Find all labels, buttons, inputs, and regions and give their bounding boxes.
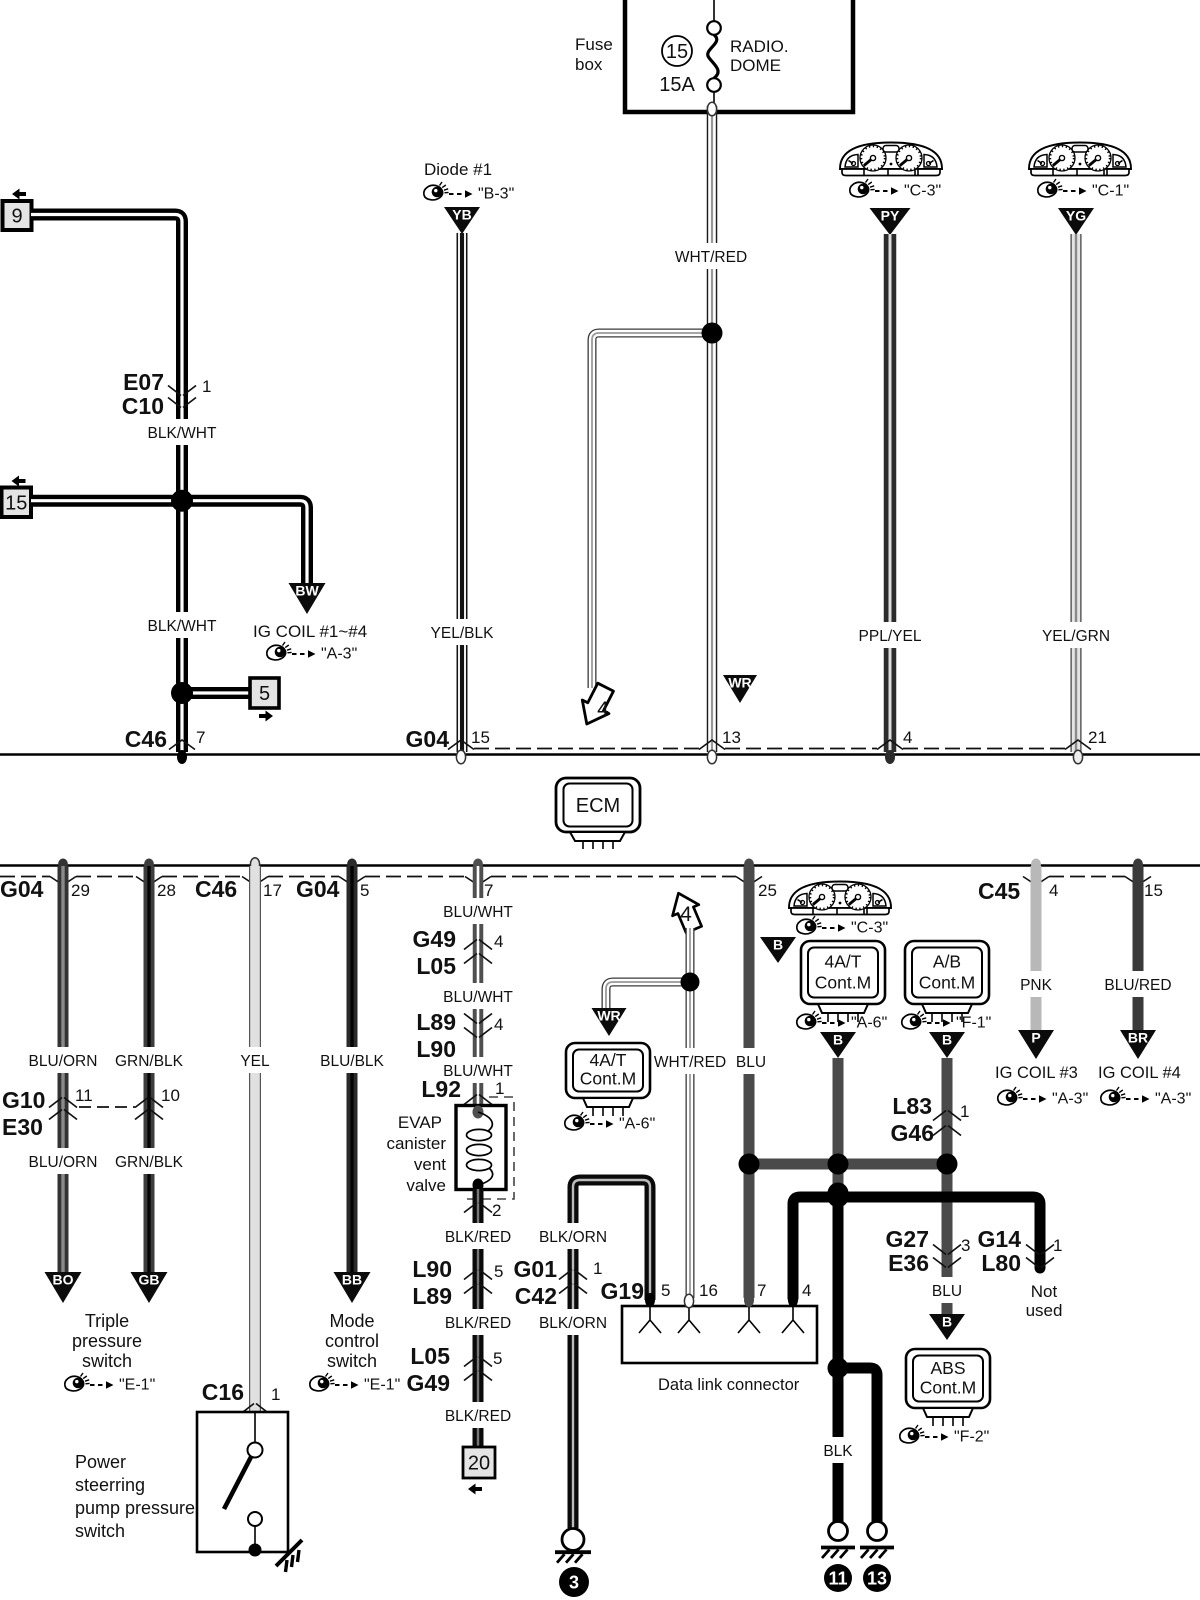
svg-text:BLK/RED: BLK/RED bbox=[445, 1315, 511, 1332]
svg-text:Triple: Triple bbox=[85, 1311, 129, 1331]
svg-text:1: 1 bbox=[202, 377, 211, 396]
label BLU/WHT 2 bbox=[443, 983, 513, 1009]
svg-text:11: 11 bbox=[828, 1569, 847, 1589]
connector triangle WR floating bbox=[723, 675, 757, 703]
svg-text:1: 1 bbox=[593, 1259, 602, 1278]
wire PPL/YEL to ECM pin 4 bbox=[884, 234, 897, 752]
ECM bottom rail with dashed connector line bbox=[0, 866, 1200, 877]
svg-text:G49: G49 bbox=[413, 926, 456, 952]
label PPL/YEL bbox=[857, 622, 923, 648]
node BLK/WHT junction 1 bbox=[171, 490, 193, 512]
4A/T control module (left) bbox=[566, 1043, 650, 1098]
wire BLU/WHT ECM 7 to EVAP valve bbox=[473, 866, 484, 1105]
svg-text:13: 13 bbox=[867, 1569, 887, 1589]
connector triangle BB bbox=[334, 1272, 371, 1303]
wire BLU/ORN ECM 29 to triple pressure switch bbox=[58, 866, 69, 1272]
label BLU/BLK bbox=[320, 1047, 384, 1073]
connector triangle B floating bbox=[760, 937, 796, 963]
rail pin 25 bbox=[736, 859, 777, 901]
svg-text:BLU/BLK: BLU/BLK bbox=[320, 1053, 384, 1070]
svg-text:WR: WR bbox=[728, 675, 751, 691]
label BLU/RED bbox=[1104, 971, 1171, 997]
svg-text:valve: valve bbox=[406, 1176, 446, 1195]
svg-text:E30: E30 bbox=[2, 1114, 43, 1140]
connector L92 pin 1 bbox=[421, 1076, 504, 1105]
wire BLK main run bbox=[793, 1197, 1040, 1298]
svg-text:G49: G49 bbox=[407, 1370, 450, 1396]
connector triangle B A/B bbox=[929, 1032, 965, 1058]
ABS reference F-2 bbox=[900, 1425, 990, 1446]
svg-text:4A/T: 4A/T bbox=[590, 1050, 627, 1070]
svg-text:25: 25 bbox=[758, 881, 777, 900]
svg-text:15: 15 bbox=[1144, 881, 1163, 900]
svg-text:B: B bbox=[833, 1032, 843, 1048]
svg-text:17: 17 bbox=[263, 881, 282, 900]
svg-text:BLU/RED: BLU/RED bbox=[1104, 977, 1171, 994]
power steering pump pressure switch box bbox=[197, 1412, 302, 1572]
node BLK/WHT junction 2 bbox=[171, 682, 193, 704]
svg-text:Diode #1: Diode #1 bbox=[424, 160, 492, 179]
label BLK/WHT lower bbox=[147, 612, 217, 638]
svg-text:7: 7 bbox=[196, 728, 205, 747]
4A/T right reference A-6 bbox=[797, 1011, 887, 1032]
svg-text:1: 1 bbox=[495, 1079, 504, 1098]
wire BLK second ground drop bbox=[838, 1368, 877, 1522]
connector triangle BR bbox=[1120, 1030, 1156, 1059]
svg-text:ABS: ABS bbox=[930, 1358, 965, 1378]
label YEL/GRN bbox=[1042, 622, 1110, 648]
arrow from page 4 (up) bbox=[665, 888, 707, 936]
svg-text:BW: BW bbox=[295, 583, 319, 599]
svg-text:15: 15 bbox=[471, 728, 490, 747]
svg-text:GB: GB bbox=[139, 1272, 160, 1288]
connector G01/C42 pin 1 bbox=[514, 1256, 603, 1309]
svg-text:20: 20 bbox=[468, 1453, 490, 1475]
svg-text:BLK/RED: BLK/RED bbox=[445, 1408, 511, 1425]
svg-text:10: 10 bbox=[161, 1086, 180, 1105]
svg-text:canister: canister bbox=[386, 1134, 446, 1153]
svg-text:"B-3": "B-3" bbox=[478, 186, 514, 203]
svg-text:C45: C45 bbox=[978, 878, 1020, 904]
svg-text:pump pressure: pump pressure bbox=[75, 1498, 195, 1518]
svg-text:switch: switch bbox=[82, 1351, 132, 1371]
wire BLK/ORN data link ground loop bbox=[573, 1180, 650, 1528]
svg-text:"A-3": "A-3" bbox=[1155, 1091, 1191, 1108]
svg-text:21: 21 bbox=[1088, 728, 1107, 747]
wire BLU from A/B B to ABS bbox=[942, 1058, 953, 1314]
svg-text:15A: 15A bbox=[659, 74, 695, 96]
svg-text:used: used bbox=[1026, 1301, 1063, 1320]
label BLU (ABS wire) bbox=[929, 1277, 965, 1303]
A/B control module bbox=[905, 941, 989, 1004]
wire BLK/WHT from box 15 to junction and IG coil branch bbox=[31, 501, 307, 583]
wire PNK to IG COIL #3 bbox=[1031, 866, 1042, 1030]
wire BLK ground drop bbox=[833, 1193, 844, 1522]
svg-text:GRN/BLK: GRN/BLK bbox=[115, 1053, 184, 1070]
svg-text:Cont.M: Cont.M bbox=[920, 1377, 976, 1397]
connector triangle B 4A/T bbox=[820, 1032, 856, 1058]
svg-text:YEL/BLK: YEL/BLK bbox=[431, 625, 495, 642]
wire BLU/BLK ECM 5 to mode control switch bbox=[347, 866, 358, 1272]
wire end G04 pin 15 bbox=[406, 726, 490, 764]
label BLK/ORN upper bbox=[539, 1223, 607, 1249]
svg-text:BLK/WHT: BLK/WHT bbox=[148, 618, 217, 635]
wire YEL ECM 17 to power steering switch bbox=[249, 866, 261, 1411]
svg-text:4A/T: 4A/T bbox=[825, 951, 862, 971]
svg-text:BLK: BLK bbox=[823, 1443, 853, 1460]
ECM top rail with dashed connector line bbox=[0, 749, 1200, 755]
svg-text:P: P bbox=[1031, 1030, 1040, 1046]
wire BLU horizontal tie bbox=[749, 1159, 947, 1170]
connector E07/C10 pin 1 bbox=[122, 369, 212, 419]
out box 20 bbox=[463, 1447, 495, 1495]
svg-text:YEL: YEL bbox=[240, 1053, 270, 1070]
svg-text:Not: Not bbox=[1031, 1282, 1058, 1301]
label BLK/RED 3 bbox=[445, 1402, 511, 1428]
connector triangle BW to IG COIL bbox=[289, 583, 326, 614]
svg-text:5: 5 bbox=[259, 683, 270, 705]
svg-text:G19: G19 bbox=[601, 1278, 644, 1304]
svg-text:BLU/WHT: BLU/WHT bbox=[443, 904, 513, 921]
cluster reference C-3 bbox=[850, 179, 941, 200]
svg-text:BLU/WHT: BLU/WHT bbox=[443, 989, 513, 1006]
in-arrow box 15 bbox=[2, 476, 32, 518]
connector triangle YG bbox=[1058, 208, 1094, 235]
svg-text:steerring: steerring bbox=[75, 1475, 145, 1495]
svg-text:YG: YG bbox=[1066, 208, 1086, 224]
connector G10/E30 pin 11 bbox=[49, 1086, 93, 1120]
svg-text:7: 7 bbox=[484, 881, 493, 900]
label GRN/BLK upper bbox=[115, 1047, 184, 1073]
svg-text:4: 4 bbox=[1049, 881, 1058, 900]
svg-text:1: 1 bbox=[1053, 1236, 1062, 1255]
Diode #1 reference bbox=[424, 160, 514, 203]
svg-text:L05: L05 bbox=[410, 1343, 450, 1369]
out-arrow box 5 bbox=[250, 678, 279, 722]
wire end pin 21 bbox=[1065, 728, 1107, 764]
svg-text:BLK/RED: BLK/RED bbox=[445, 1229, 511, 1246]
svg-text:vent: vent bbox=[414, 1155, 446, 1174]
rail pin 15 bbox=[1125, 859, 1163, 901]
svg-text:"F-2": "F-2" bbox=[954, 1429, 989, 1446]
label YEL bbox=[238, 1047, 272, 1073]
ABS control module bbox=[906, 1349, 990, 1408]
svg-text:switch: switch bbox=[75, 1521, 125, 1541]
svg-text:Power: Power bbox=[75, 1452, 126, 1472]
connector L89/L90 pin 4 bbox=[416, 1009, 503, 1062]
wire end pin 4 bbox=[877, 728, 912, 764]
fuse 15 15A RADIO.DOME bbox=[659, 0, 788, 112]
svg-text:16: 16 bbox=[699, 1281, 718, 1300]
svg-text:G01: G01 bbox=[514, 1256, 558, 1282]
label WHT/RED lower bbox=[654, 1048, 726, 1074]
label BLU/WHT 3 bbox=[443, 1057, 513, 1083]
svg-text:1: 1 bbox=[271, 1385, 280, 1404]
svg-text:WHT/RED: WHT/RED bbox=[654, 1054, 726, 1071]
label BLK/ORN lower bbox=[539, 1309, 607, 1335]
data link connector bbox=[622, 1306, 817, 1394]
label BLU/ORN upper bbox=[29, 1047, 98, 1073]
connector triangle P bbox=[1018, 1030, 1054, 1059]
connector G14/L80 pin 1 not used bbox=[978, 1226, 1063, 1320]
fuse box bbox=[575, 0, 853, 112]
svg-text:IG COIL #3: IG COIL #3 bbox=[995, 1064, 1078, 1082]
wire BLU from 4A/T B bbox=[833, 1058, 844, 1193]
svg-text:ECM: ECM bbox=[576, 795, 620, 817]
connector L05/G49 pin 5 bbox=[407, 1343, 503, 1396]
svg-text:13: 13 bbox=[722, 728, 741, 747]
svg-text:4: 4 bbox=[903, 728, 912, 747]
wire BLU/RED to IG COIL #4 bbox=[1133, 866, 1144, 1030]
label BLU (25 wire) bbox=[734, 1048, 768, 1074]
connector triangle BO bbox=[45, 1272, 82, 1303]
wire BLK/WHT from box 9 bbox=[31, 215, 182, 753]
svg-text:"E-1": "E-1" bbox=[119, 1377, 155, 1394]
svg-text:G27: G27 bbox=[886, 1226, 929, 1252]
svg-text:3: 3 bbox=[569, 1573, 579, 1593]
label BLK/RED 1 bbox=[445, 1223, 511, 1249]
svg-text:control: control bbox=[325, 1331, 379, 1351]
G19 and pin numbers bbox=[601, 1278, 812, 1304]
svg-text:YEL/GRN: YEL/GRN bbox=[1042, 628, 1110, 645]
svg-text:G04: G04 bbox=[406, 726, 450, 752]
svg-text:C16: C16 bbox=[202, 1379, 244, 1405]
4A/T left reference A-6 bbox=[565, 1112, 655, 1133]
svg-text:G14: G14 bbox=[978, 1226, 1022, 1252]
svg-text:BLK/WHT: BLK/WHT bbox=[148, 425, 217, 442]
ground symbol 11 bbox=[821, 1522, 855, 1593]
wire WHT/RED to data link pin 16 with 4A/T branch bbox=[606, 928, 690, 1298]
svg-text:9: 9 bbox=[11, 206, 22, 228]
label WHT/RED bbox=[675, 243, 747, 269]
EVAP pin 2 bbox=[464, 1201, 501, 1220]
svg-text:switch: switch bbox=[327, 1351, 377, 1371]
svg-text:"A-3": "A-3" bbox=[1052, 1091, 1088, 1108]
svg-text:"A-6": "A-6" bbox=[851, 1015, 887, 1032]
label PNK bbox=[1016, 971, 1056, 997]
label BLK/RED 2 bbox=[445, 1309, 511, 1335]
svg-text:"C-3": "C-3" bbox=[851, 920, 888, 937]
svg-text:L90: L90 bbox=[412, 1256, 452, 1282]
svg-text:WHT/RED: WHT/RED bbox=[675, 249, 747, 266]
rail pin 28 bbox=[136, 859, 176, 901]
svg-text:L83: L83 bbox=[892, 1093, 932, 1119]
rail pin 29 bbox=[50, 859, 90, 901]
svg-text:"C-3": "C-3" bbox=[904, 183, 941, 200]
wire branch to out-arrow box 5 bbox=[182, 687, 250, 699]
in-arrow box 9 bbox=[3, 189, 32, 231]
svg-text:L05: L05 bbox=[416, 953, 456, 979]
svg-text:C46: C46 bbox=[125, 726, 167, 752]
svg-text:Cont.M: Cont.M bbox=[919, 972, 975, 992]
Triple pressure switch reference bbox=[65, 1311, 155, 1394]
svg-text:RADIO.: RADIO. bbox=[730, 37, 789, 56]
svg-text:L89: L89 bbox=[416, 1009, 456, 1035]
svg-text:G10: G10 bbox=[2, 1087, 45, 1113]
svg-text:Mode: Mode bbox=[329, 1311, 374, 1331]
instrument cluster icon 2 bbox=[1029, 143, 1131, 176]
svg-text:1: 1 bbox=[960, 1102, 969, 1121]
svg-text:5: 5 bbox=[494, 1262, 503, 1281]
node BLK junction lower bbox=[828, 1358, 849, 1379]
svg-text:BLU/ORN: BLU/ORN bbox=[29, 1053, 98, 1070]
svg-text:DOME: DOME bbox=[730, 56, 781, 75]
node WHT/RED junction 2 bbox=[681, 973, 700, 992]
svg-text:Cont.M: Cont.M bbox=[580, 1068, 636, 1088]
svg-text:EVAP: EVAP bbox=[398, 1113, 442, 1132]
svg-text:Fuse: Fuse bbox=[575, 35, 613, 54]
svg-text:IG COIL #1~#4: IG COIL #1~#4 bbox=[253, 622, 367, 641]
svg-text:WR: WR bbox=[597, 1008, 620, 1024]
svg-text:box: box bbox=[575, 55, 603, 74]
connector G27/E36 pin 3 bbox=[886, 1226, 971, 1276]
label YEL/BLK bbox=[431, 619, 495, 645]
svg-text:BLU: BLU bbox=[932, 1283, 962, 1300]
svg-text:5: 5 bbox=[360, 881, 369, 900]
svg-text:5: 5 bbox=[493, 1349, 502, 1368]
IG COIL #1~#4 reference bbox=[253, 622, 367, 663]
connector triangle YB bbox=[444, 207, 480, 234]
svg-text:"A-6": "A-6" bbox=[619, 1116, 655, 1133]
svg-text:BLU: BLU bbox=[736, 1054, 766, 1071]
wire GRN/BLK ECM 28 to triple pressure switch bbox=[144, 866, 155, 1272]
ECM module bbox=[556, 778, 640, 849]
ground symbol 13 bbox=[860, 1522, 894, 1593]
svg-text:E07: E07 bbox=[123, 369, 164, 395]
wire YEL/GRN to ECM pin 21 bbox=[1071, 234, 1082, 752]
svg-text:L92: L92 bbox=[421, 1076, 461, 1102]
svg-text:B: B bbox=[942, 1314, 952, 1330]
instrument cluster icon 1 bbox=[840, 143, 942, 176]
svg-text:BO: BO bbox=[53, 1272, 74, 1288]
rail pin 4 bbox=[1023, 859, 1058, 901]
G10/E30 labels and pair dash bbox=[2, 1087, 135, 1140]
node BLK junction top bbox=[828, 1187, 849, 1208]
EVAP canister vent valve bbox=[386, 1097, 514, 1199]
cluster reference C-1 bbox=[1038, 179, 1129, 200]
BLU junction nodes bbox=[739, 1154, 760, 1175]
svg-text:C46: C46 bbox=[195, 876, 237, 902]
svg-text:3: 3 bbox=[961, 1236, 970, 1255]
connector triangle B ABS bbox=[929, 1314, 965, 1340]
svg-text:L89: L89 bbox=[412, 1283, 452, 1309]
connector L83/G46 pin 1 bbox=[891, 1093, 970, 1146]
wire BLU ECM 25 to data link pin 7 bbox=[744, 866, 755, 1298]
node WHT/RED junction bbox=[702, 323, 723, 344]
wire BLK/RED EVAP to box 20 bbox=[473, 1189, 484, 1447]
arrow to page 4 (down-left) bbox=[573, 680, 618, 730]
svg-text:28: 28 bbox=[157, 881, 176, 900]
svg-text:YB: YB bbox=[452, 207, 471, 223]
svg-text:B: B bbox=[942, 1032, 952, 1048]
IG COIL #4 reference bbox=[1098, 1064, 1191, 1108]
svg-text:IG COIL #4: IG COIL #4 bbox=[1098, 1064, 1181, 1082]
svg-text:4: 4 bbox=[680, 903, 692, 926]
svg-text:BLU/ORN: BLU/ORN bbox=[29, 1154, 98, 1171]
svg-text:BR: BR bbox=[1128, 1030, 1148, 1046]
cluster reference C-3 (2) bbox=[797, 916, 888, 937]
svg-text:A/B: A/B bbox=[933, 951, 961, 971]
svg-text:B: B bbox=[773, 937, 783, 953]
svg-text:pressure: pressure bbox=[72, 1331, 142, 1351]
svg-text:PY: PY bbox=[881, 208, 900, 224]
svg-text:15: 15 bbox=[666, 41, 688, 63]
power steering switch label bbox=[75, 1452, 195, 1541]
connector L90/L89 pin 5 bbox=[412, 1256, 503, 1309]
svg-text:2: 2 bbox=[492, 1201, 501, 1220]
svg-text:Cont.M: Cont.M bbox=[815, 972, 871, 992]
svg-text:GRN/BLK: GRN/BLK bbox=[115, 1154, 184, 1171]
label BLK/WHT upper bbox=[147, 419, 217, 445]
svg-text:BLK/ORN: BLK/ORN bbox=[539, 1315, 607, 1332]
svg-text:BB: BB bbox=[342, 1272, 362, 1288]
label BLU/WHT 1 bbox=[443, 898, 513, 924]
instrument cluster icon 3 bbox=[789, 882, 891, 915]
svg-text:4: 4 bbox=[494, 1015, 503, 1034]
svg-text:C10: C10 bbox=[122, 393, 164, 419]
svg-text:C42: C42 bbox=[515, 1283, 557, 1309]
svg-text:"E-1": "E-1" bbox=[364, 1377, 400, 1394]
rail pin 7 bbox=[465, 859, 493, 901]
wire YEL/BLK diode to ECM pin 15 bbox=[457, 233, 468, 752]
svg-text:PPL/YEL: PPL/YEL bbox=[859, 628, 922, 645]
label BLU/ORN lower bbox=[29, 1148, 98, 1174]
connector triangle WR to 4A/T bbox=[592, 1008, 627, 1036]
svg-text:G46: G46 bbox=[891, 1120, 934, 1146]
svg-text:29: 29 bbox=[71, 881, 90, 900]
svg-text:E36: E36 bbox=[888, 1250, 929, 1276]
rail pin 5 bbox=[339, 859, 369, 901]
svg-text:4: 4 bbox=[597, 698, 609, 721]
wire end pin 13 bbox=[699, 728, 741, 764]
label BLK bbox=[818, 1437, 858, 1463]
label GRN/BLK lower bbox=[115, 1148, 184, 1174]
A/B reference F-1 bbox=[902, 1011, 992, 1032]
svg-text:PNK: PNK bbox=[1020, 977, 1053, 994]
svg-text:4: 4 bbox=[494, 932, 503, 951]
svg-text:L80: L80 bbox=[981, 1250, 1021, 1276]
connector C16 pin 1 bbox=[202, 1379, 281, 1414]
connector triangle GB bbox=[131, 1272, 168, 1303]
svg-text:"A-3": "A-3" bbox=[321, 646, 357, 663]
svg-text:5: 5 bbox=[661, 1281, 670, 1300]
svg-text:15: 15 bbox=[5, 492, 27, 514]
svg-text:BLK/ORN: BLK/ORN bbox=[539, 1229, 607, 1246]
svg-text:Data link connector: Data link connector bbox=[658, 1376, 800, 1394]
svg-text:G04: G04 bbox=[296, 876, 340, 902]
svg-text:11: 11 bbox=[75, 1086, 93, 1105]
ground symbol 3 bbox=[555, 1529, 591, 1598]
data link pin caps bbox=[645, 1293, 655, 1307]
svg-text:7: 7 bbox=[757, 1281, 766, 1300]
4A/T control module (right) bbox=[801, 941, 885, 1004]
wire end C46 pin 7 bbox=[125, 726, 206, 764]
svg-text:"C-1": "C-1" bbox=[1092, 183, 1129, 200]
svg-text:4: 4 bbox=[802, 1281, 811, 1300]
svg-text:G04: G04 bbox=[0, 876, 44, 902]
svg-text:"F-1": "F-1" bbox=[956, 1015, 991, 1032]
connector G49/L05 pin 4 bbox=[413, 926, 504, 979]
connector G10/E30 pin 10 bbox=[135, 1086, 180, 1120]
wire WHT/RED from fuse to ECM pin 13 with branch bbox=[592, 102, 717, 752]
Mode control switch reference bbox=[310, 1311, 400, 1394]
IG COIL #3 reference bbox=[995, 1064, 1088, 1108]
rail pin 17 bbox=[242, 858, 282, 900]
connector triangle PY bbox=[870, 208, 911, 235]
